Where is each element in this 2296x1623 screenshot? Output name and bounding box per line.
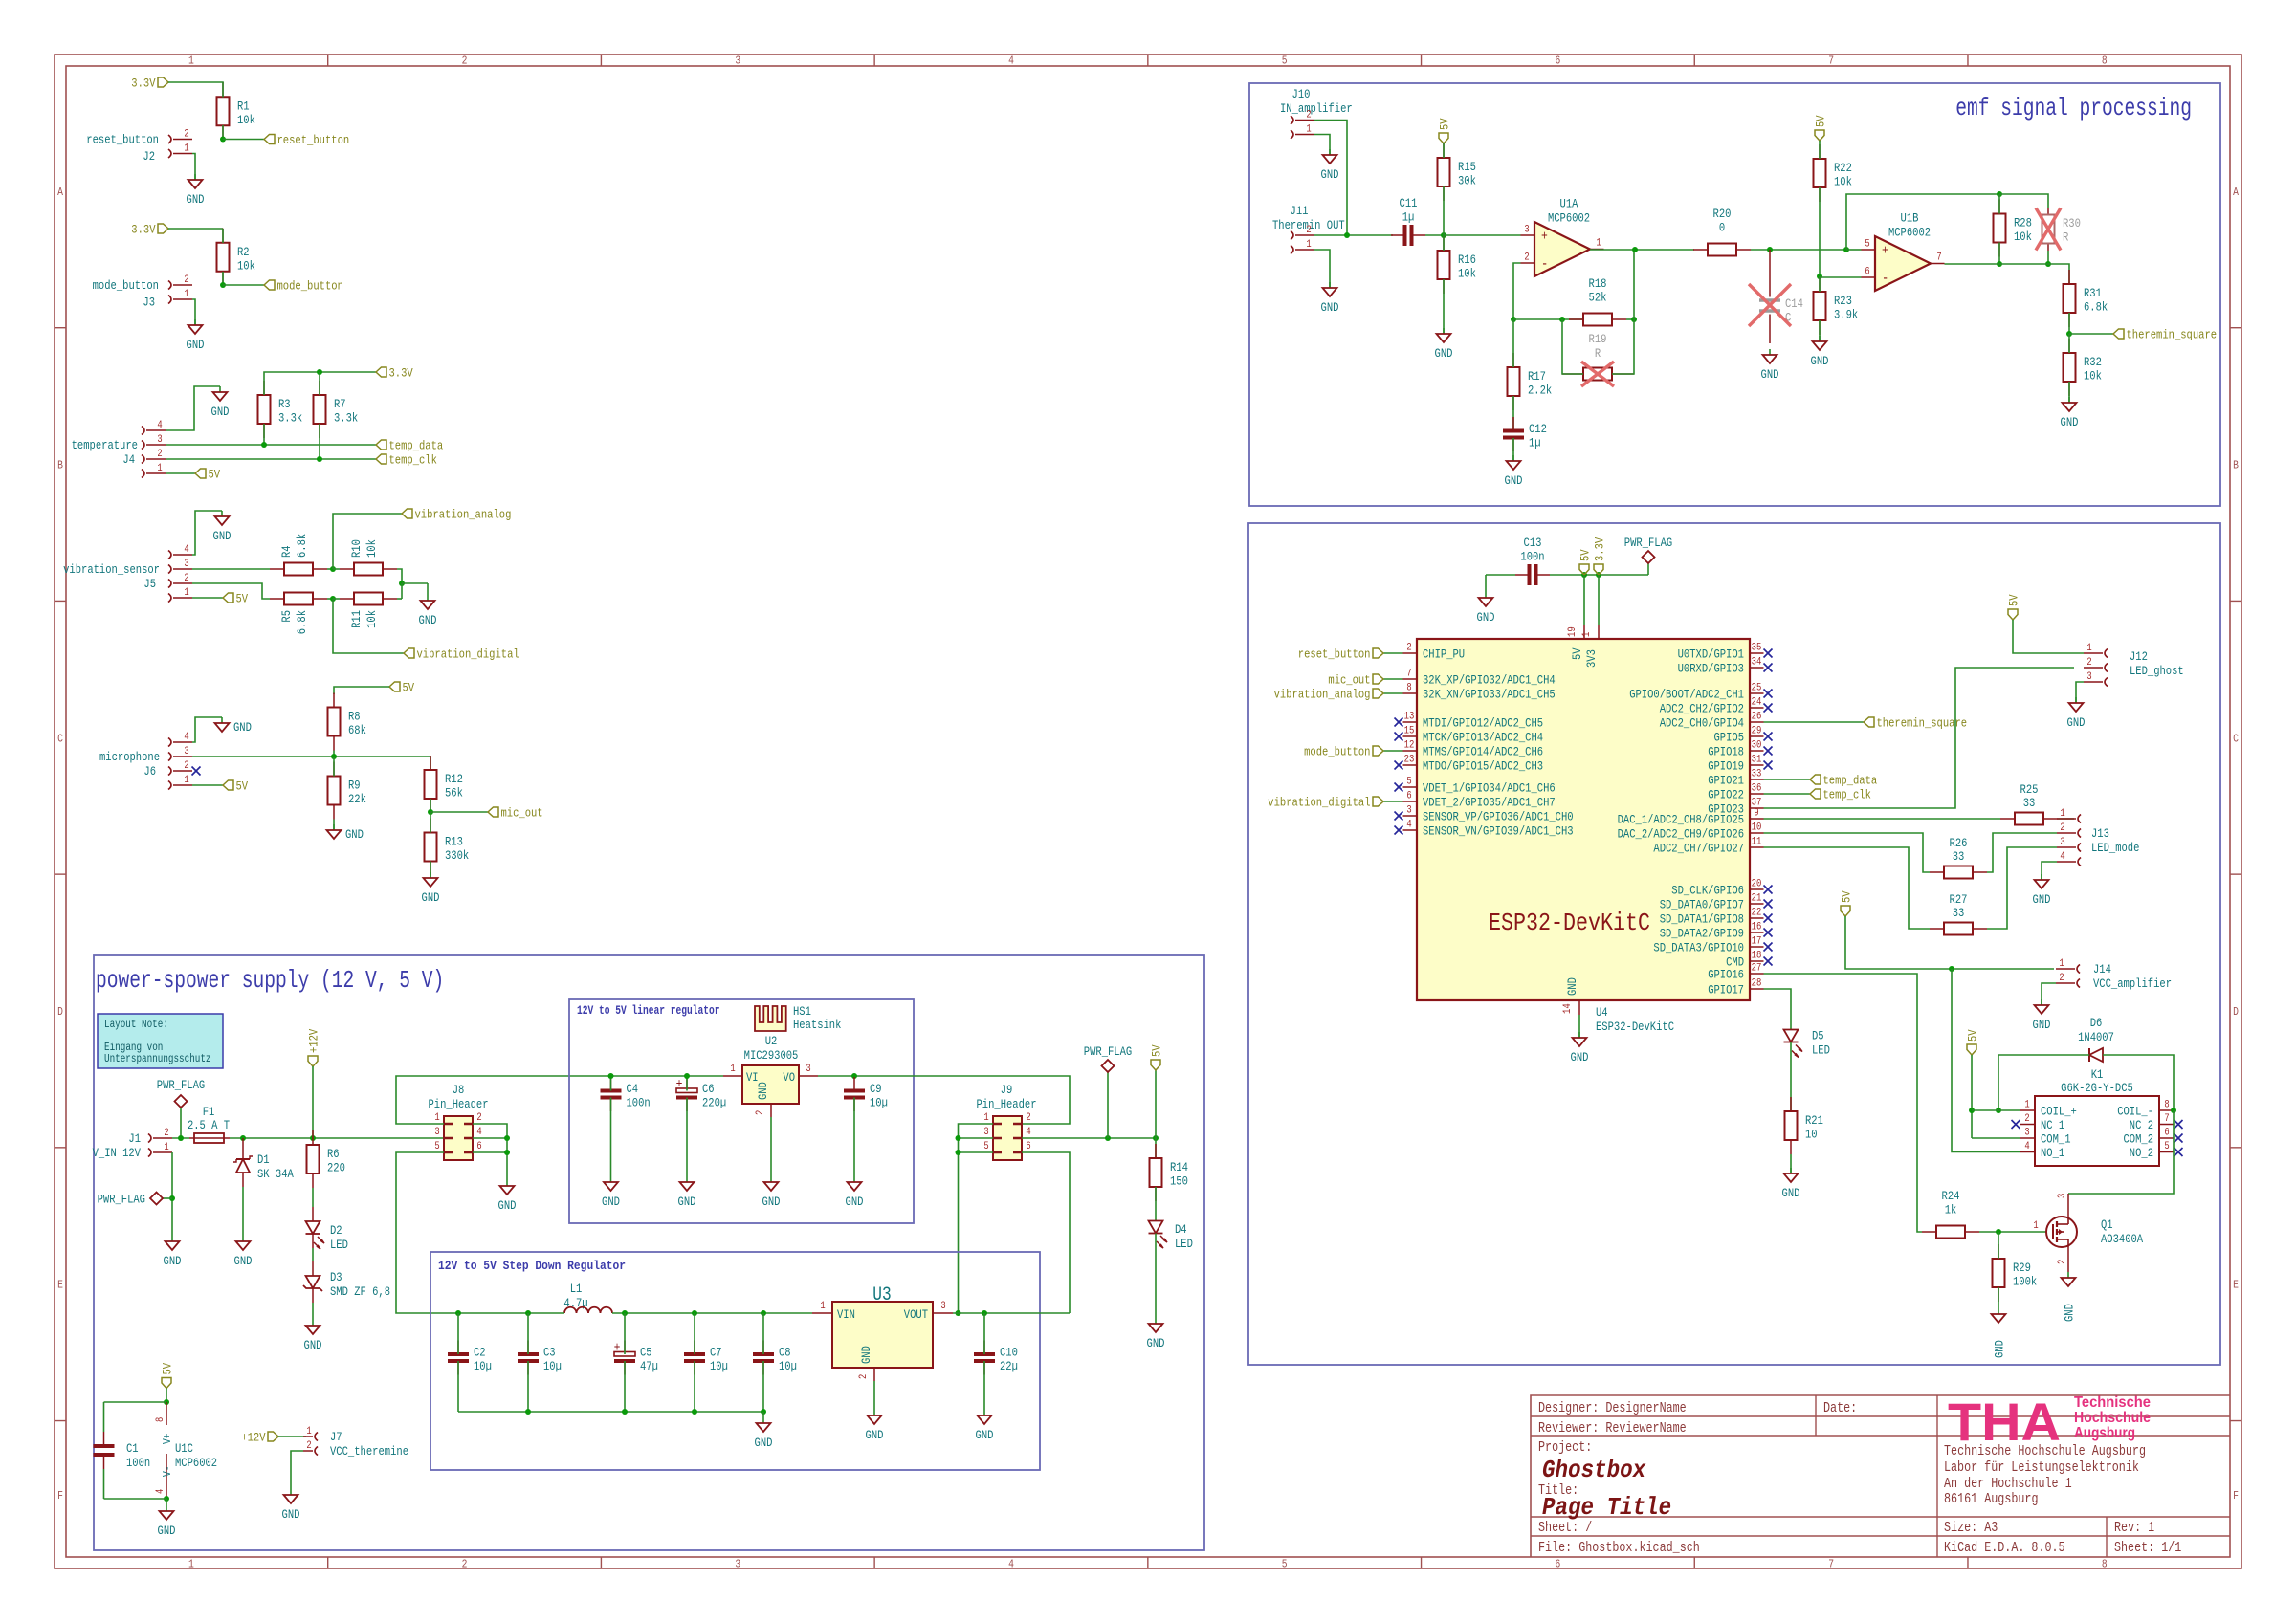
svg-text:10k: 10k xyxy=(237,113,255,127)
wire D4 to GND xyxy=(1155,1234,1157,1325)
regulator U2 pin VO xyxy=(783,1064,818,1085)
wire R10 to right corner xyxy=(397,569,402,583)
wire J2 pin1 to GND xyxy=(192,154,195,181)
esp32 section box xyxy=(1248,523,2220,1365)
svg-text:86161 Augsburg: 86161 Augsburg xyxy=(1944,1492,2039,1507)
svg-text:theremin_square: theremin_square xyxy=(1877,716,1968,731)
no-connect ESP32 pin 20 xyxy=(1764,886,1773,894)
resistor R17 xyxy=(1508,353,1553,410)
wire junction down to R11 xyxy=(401,583,403,599)
resistor R7 xyxy=(314,381,359,438)
ESP32 right pin 36 GPIO22 xyxy=(1708,783,1763,802)
svg-text:2: 2 xyxy=(2086,657,2091,669)
svg-text:2: 2 xyxy=(2057,1260,2068,1264)
wire C2 bottom xyxy=(457,1361,459,1412)
svg-text:6.8k: 6.8k xyxy=(295,610,309,634)
wire junction to R23 xyxy=(1819,276,1821,292)
svg-text:33: 33 xyxy=(1953,906,1965,920)
ESP32 right pin 28 GPIO17 xyxy=(1708,978,1763,998)
svg-text:2: 2 xyxy=(462,55,468,68)
wire gate to R29 xyxy=(1998,1232,1999,1259)
ground below D4 xyxy=(1147,1324,1165,1350)
svg-text:temp_clk: temp_clk xyxy=(389,453,438,468)
svg-text:B: B xyxy=(2233,459,2239,472)
wire R11 right pin xyxy=(397,598,402,600)
Q1 source pin 2 xyxy=(2057,1247,2068,1272)
svg-text:GND: GND xyxy=(2061,415,2079,429)
svg-text:J7: J7 xyxy=(330,1430,342,1444)
svg-text:1µ: 1µ xyxy=(1402,210,1415,225)
ground for J11 xyxy=(1321,282,1339,315)
svg-text:GND: GND xyxy=(1761,367,1779,382)
svg-text:ADC2_CH0/GPIO4: ADC2_CH0/GPIO4 xyxy=(1660,716,1744,731)
ESP32 left pin 12 MTMS/GPIO14/ADC2_CH6 xyxy=(1403,740,1544,759)
svg-text:3: 3 xyxy=(157,434,162,446)
wire COM_1 to 5V xyxy=(1972,1137,2020,1139)
svg-text:17: 17 xyxy=(1752,936,1762,948)
svg-text:GND: GND xyxy=(1435,346,1453,361)
svg-text:12V to 5V Step Down Regulator: 12V to 5V Step Down Regulator xyxy=(438,1259,626,1273)
node gnd rail C7 xyxy=(692,1409,697,1415)
DNP cross on R19 xyxy=(1581,362,1614,386)
wire 3.3V to R2 xyxy=(168,228,223,230)
wire R28 top xyxy=(1998,194,2000,214)
wire R32 top xyxy=(2068,334,2070,353)
node coil plus junction xyxy=(1969,1108,1975,1113)
svg-text:GND: GND xyxy=(1571,1050,1589,1064)
svg-text:4: 4 xyxy=(2060,851,2065,863)
svg-text:16: 16 xyxy=(1752,922,1762,933)
svg-text:2: 2 xyxy=(1406,643,1411,654)
op-amp U1A xyxy=(1521,197,1604,277)
svg-text:R28: R28 xyxy=(2014,216,2032,230)
wire J9 pin4 to 5V rail xyxy=(1022,1137,1156,1139)
svg-text:1: 1 xyxy=(306,1426,312,1437)
wire J8 pin1 to linear rail xyxy=(396,1076,723,1124)
resistor R2 xyxy=(217,229,256,286)
svg-text:SD_DATA1/GPIO8: SD_DATA1/GPIO8 xyxy=(1660,912,1744,927)
svg-text:5V: 5V xyxy=(2007,594,2021,606)
wire R12 bottom to junction xyxy=(430,799,431,812)
no-connect K1 COM_2 xyxy=(2175,1134,2183,1143)
wire 5V to R15 xyxy=(1443,143,1445,158)
svg-text:C: C xyxy=(57,732,63,745)
svg-text:F1: F1 xyxy=(203,1105,215,1119)
connector J6 pin 4 xyxy=(168,732,192,747)
wire R23 to GND xyxy=(1819,320,1821,341)
svg-text:R13: R13 xyxy=(445,835,463,849)
wire junction to R17 xyxy=(1512,319,1514,367)
ESP32 right pin 30 GPIO18 xyxy=(1708,740,1763,759)
svg-text:J10: J10 xyxy=(1292,87,1311,101)
ESP32 right pin 33 GPIO21 xyxy=(1708,769,1763,788)
connector J5 pin 2 xyxy=(168,573,192,588)
wire J8 pin5 to buck rail xyxy=(396,1152,458,1313)
connector J13 pin 1 xyxy=(2057,808,2081,823)
svg-text:2: 2 xyxy=(1306,225,1311,236)
svg-text:PWR_FLAG: PWR_FLAG xyxy=(98,1193,145,1207)
svg-text:3: 3 xyxy=(735,55,740,68)
ESP32 right pin 26 ADC2_CH0/GPIO4 xyxy=(1660,712,1764,731)
svg-text:36: 36 xyxy=(1752,783,1762,795)
hier label theremin_square at ESP32 xyxy=(1864,716,1967,731)
svg-text:J12: J12 xyxy=(2130,649,2148,664)
svg-text:1: 1 xyxy=(164,1142,169,1153)
wire U1B minus jog xyxy=(1820,276,1862,278)
node J10/J11 junction xyxy=(1344,232,1350,238)
wire C1 bottom rail xyxy=(104,1498,167,1500)
wire J5 pin3 to R4 xyxy=(192,568,270,570)
svg-text:+: + xyxy=(614,1341,621,1356)
svg-text:10: 10 xyxy=(1752,822,1762,834)
svg-text:2: 2 xyxy=(462,1558,468,1571)
svg-text:3: 3 xyxy=(2024,1128,2029,1139)
svg-text:temperature: temperature xyxy=(72,438,138,452)
svg-text:GPIO18: GPIO18 xyxy=(1708,745,1744,759)
relay K1 right pin 8 COIL_- xyxy=(2117,1100,2174,1119)
connector J8 pin stubs and numbers xyxy=(434,1112,482,1152)
svg-text:V-: V- xyxy=(161,1465,174,1477)
ESP32 right pin 35 U0TXD/GPIO1 xyxy=(1678,643,1764,662)
wire R15 to junction xyxy=(1443,186,1445,235)
ESP32 right pin 11 ADC2_CH7/GPIO27 xyxy=(1653,837,1763,856)
connector J12 pin 2 xyxy=(2084,657,2108,672)
svg-text:33: 33 xyxy=(1752,769,1762,780)
hier label theremin_square xyxy=(2113,328,2217,342)
resistor R14 xyxy=(1150,1144,1189,1201)
svg-text:R14: R14 xyxy=(1170,1160,1188,1174)
wire J1 pin1 down xyxy=(171,1152,173,1236)
svg-text:GND: GND xyxy=(1993,1340,2007,1358)
node coil plus junction 2 xyxy=(1996,1108,2001,1113)
svg-text:R21: R21 xyxy=(1805,1113,1823,1128)
frame row tick 4 right xyxy=(2230,1147,2241,1149)
connector J1 pin 1 xyxy=(148,1142,172,1157)
connector J4 pin 4 xyxy=(142,420,166,435)
svg-text:2: 2 xyxy=(1524,252,1529,264)
wire 3.3V to R1 xyxy=(168,81,223,84)
svg-text:SMD ZF 6,8: SMD ZF 6,8 xyxy=(330,1284,390,1299)
resistor R26 xyxy=(1930,836,1987,879)
svg-text:SD_DATA0/GPIO7: SD_DATA0/GPIO7 xyxy=(1660,898,1744,912)
svg-text:+12V: +12V xyxy=(307,1029,321,1053)
hier label 3.3V (R1 pull-up) xyxy=(131,77,168,91)
svg-text:1: 1 xyxy=(157,463,163,474)
no-connect K1 NC_1 xyxy=(2012,1120,2020,1129)
hier label temp_data at ESP32 xyxy=(1810,774,1877,788)
connector J1 pin 2 xyxy=(148,1128,172,1143)
wire mic_out xyxy=(430,811,488,813)
wire J9 pin6 to VOUT rail xyxy=(1022,1152,1070,1313)
LED D2 xyxy=(306,1188,349,1252)
svg-text:3.3V: 3.3V xyxy=(131,77,155,91)
frame column tick 3 bottom xyxy=(873,1557,875,1568)
svg-text:10k: 10k xyxy=(364,610,379,628)
svg-text:Size: A3: Size: A3 xyxy=(1944,1521,1998,1536)
svg-text:R4: R4 xyxy=(279,545,294,558)
zener diode D3 SMD ZF 6,8 xyxy=(303,1234,390,1326)
wire C2 top xyxy=(457,1313,459,1354)
wire J10 pin1 to GND xyxy=(1314,135,1330,156)
wire R27 to J13 pin3 xyxy=(1987,847,2057,929)
svg-text:32K_XN/GPIO33/ADC1_CH5: 32K_XN/GPIO33/ADC1_CH5 xyxy=(1423,688,1556,702)
svg-text:SENSOR_VP/GPIO36/ADC1_CH0: SENSOR_VP/GPIO36/ADC1_CH0 xyxy=(1423,810,1574,824)
no-connect K1 NO_2 xyxy=(2175,1148,2183,1156)
ESP32 pin 14 stub (GND) xyxy=(1562,977,1579,1015)
wire R20 to C14 node xyxy=(1751,249,1795,251)
connector J3 pin 1 xyxy=(168,289,192,304)
wire junction to reset_button label xyxy=(223,139,264,141)
wire theremin_square label xyxy=(2069,333,2113,335)
svg-text:D3: D3 xyxy=(330,1270,342,1284)
svg-text:J6: J6 xyxy=(143,764,156,779)
power flag at V_IN xyxy=(157,1078,205,1138)
svg-text:SD_DATA2/GPIO9: SD_DATA2/GPIO9 xyxy=(1660,927,1744,941)
svg-text:File: Ghostbox.kicad_sch: File: Ghostbox.kicad_sch xyxy=(1538,1541,1700,1556)
wire R22 down crossing xyxy=(1819,187,1821,276)
svg-text:A: A xyxy=(57,186,63,199)
wire J8 pin6 tie xyxy=(473,1151,507,1153)
ground for J5 pin4 xyxy=(213,511,232,543)
wire R31 bottom xyxy=(2068,313,2070,334)
frame column tick 3 top xyxy=(873,55,875,66)
no-connect ESP32 pin 29 xyxy=(1764,733,1773,741)
svg-text:VDET_1/GPIO34/ADC1_CH6: VDET_1/GPIO34/ADC1_CH6 xyxy=(1423,781,1556,796)
svg-text:HS1: HS1 xyxy=(793,1004,811,1019)
ground below C4 xyxy=(602,1176,620,1209)
svg-text:GND: GND xyxy=(304,1338,322,1352)
svg-text:2: 2 xyxy=(184,760,188,772)
no-connect ESP32 pin 16 xyxy=(1764,929,1773,937)
ground below U1C xyxy=(158,1511,176,1538)
svg-text:K1: K1 xyxy=(2091,1067,2104,1082)
wire GPIO27 jog down xyxy=(1764,847,1931,929)
wire J6 pin1 to 5V xyxy=(192,784,223,786)
connector J6 pin 3 xyxy=(168,746,192,761)
resistor R13 xyxy=(425,819,470,876)
svg-text:reset_button: reset_button xyxy=(1298,647,1371,662)
node NO_1 tap junction xyxy=(1949,966,1954,972)
wire C5 bottom xyxy=(624,1361,626,1412)
svg-text:52k: 52k xyxy=(1589,291,1607,305)
svg-text:14: 14 xyxy=(1562,1003,1574,1014)
svg-text:5V: 5V xyxy=(1438,118,1452,130)
wire J13 pin4 to GND xyxy=(2042,862,2057,880)
svg-text:DAC_2/ADC2_CH9/GPIO26: DAC_2/ADC2_CH9/GPIO26 xyxy=(1618,827,1744,842)
capacitor C5 xyxy=(614,1341,658,1375)
wire R8 bottom xyxy=(333,751,335,757)
svg-text:GND: GND xyxy=(1321,167,1339,182)
resistor R22 xyxy=(1814,144,1853,202)
svg-text:C7: C7 xyxy=(710,1346,722,1360)
wire C13 to PWR_FLAG xyxy=(1550,574,1648,576)
svg-text:GND: GND xyxy=(2067,715,2086,730)
svg-text:Technische: Technische xyxy=(2074,1394,2151,1411)
svg-text:3: 3 xyxy=(184,559,188,570)
svg-text:2: 2 xyxy=(2060,822,2064,834)
svg-text:30k: 30k xyxy=(1458,174,1476,188)
svg-text:mode_button: mode_button xyxy=(93,278,159,293)
node C6 junction xyxy=(684,1073,690,1079)
wire C3 top xyxy=(527,1313,529,1354)
svg-text:33: 33 xyxy=(1953,849,1965,864)
resistor R25 xyxy=(2000,782,2058,825)
node J9 left to VOUT rail xyxy=(956,1310,961,1316)
node J8 right tie 2 xyxy=(504,1150,510,1155)
svg-text:COIL_-: COIL_- xyxy=(2117,1105,2153,1119)
svg-text:Designer: DesignerName: Designer: DesignerName xyxy=(1538,1401,1687,1416)
ESP32 right pin 17 SD_DATA3/GPIO10 xyxy=(1653,936,1763,955)
node feedback left junction xyxy=(1511,317,1516,322)
wire junction to vibration_digital xyxy=(333,599,404,653)
connector J2 pin 1 xyxy=(168,143,192,159)
linear regulator section box xyxy=(569,999,914,1223)
resistor R32 xyxy=(2064,339,2103,396)
svg-text:1: 1 xyxy=(434,1112,440,1124)
ground left of C13 xyxy=(1477,575,1495,625)
node U1C V+ junction xyxy=(164,1399,169,1405)
resistor R6 xyxy=(307,1130,345,1188)
fuse F1 xyxy=(188,1105,230,1143)
frame row tick 3 left xyxy=(55,873,66,875)
frame column tick 1 top xyxy=(327,55,329,66)
svg-text:U1B: U1B xyxy=(1901,211,1919,226)
ESP32 right pin 18 CMD xyxy=(1726,951,1763,970)
svg-text:GND: GND xyxy=(1782,1186,1800,1200)
hier label 5V for J4 xyxy=(195,468,220,482)
svg-text:Project:: Project: xyxy=(1538,1440,1592,1456)
frame column tick 6 bottom xyxy=(1693,1557,1695,1568)
LED D4 xyxy=(1149,1221,1194,1252)
svg-text:3.3V: 3.3V xyxy=(1593,537,1607,561)
svg-text:2: 2 xyxy=(1026,1112,1030,1124)
svg-text:1: 1 xyxy=(184,775,189,786)
node C5 junction xyxy=(622,1310,628,1316)
svg-text:5: 5 xyxy=(1282,1558,1288,1571)
svg-text:19: 19 xyxy=(1567,626,1578,637)
svg-text:SD_DATA3/GPIO10: SD_DATA3/GPIO10 xyxy=(1653,941,1744,955)
svg-text:E: E xyxy=(57,1279,63,1292)
relay K1 right pin 6 COM_2 xyxy=(2124,1128,2175,1147)
svg-text:+12V: +12V xyxy=(241,1431,265,1445)
svg-text:D1: D1 xyxy=(257,1152,270,1167)
wire J11 pin2 to C11 xyxy=(1314,234,1393,236)
ESP32 right pin 24 ADC2_CH2/GPIO2 xyxy=(1660,697,1764,716)
wire R7 bottom to temp_clk xyxy=(319,424,320,459)
wire R1 to junction xyxy=(222,125,224,140)
svg-text:R16: R16 xyxy=(1458,252,1476,267)
wire R26 to J13 pin2 xyxy=(1987,833,2057,872)
node 5V label junction xyxy=(1153,1135,1159,1141)
svg-text:8: 8 xyxy=(1406,683,1411,694)
svg-text:1: 1 xyxy=(730,1064,736,1075)
hier label mode_button at ESP32 xyxy=(1304,745,1383,759)
svg-text:R23: R23 xyxy=(1834,294,1852,308)
capacitor C10 xyxy=(974,1341,1018,1375)
node R6 junction xyxy=(310,1135,316,1141)
wire C6 to GND xyxy=(686,1098,688,1177)
svg-text:VO: VO xyxy=(783,1070,795,1085)
ground below R9 xyxy=(327,824,364,842)
connector J5 pin 3 xyxy=(168,559,192,574)
wire U1C to GND xyxy=(166,1499,167,1511)
svg-text:4: 4 xyxy=(184,732,189,743)
wire R2 to junction xyxy=(222,272,224,285)
svg-text:27: 27 xyxy=(1752,963,1762,975)
wire R32 to GND xyxy=(2068,382,2070,403)
svg-text:3: 3 xyxy=(184,746,188,757)
node C7 junction xyxy=(692,1310,697,1316)
svg-text:5: 5 xyxy=(434,1141,439,1152)
svg-text:J2: J2 xyxy=(143,149,155,164)
svg-text:R8: R8 xyxy=(348,710,361,724)
wire 5V to R8 xyxy=(334,687,389,694)
title block logo column line xyxy=(1936,1395,1938,1557)
svg-text:R9: R9 xyxy=(348,779,361,793)
wire D6 cathode side xyxy=(1998,1055,2089,1110)
connector J7 pin 1 xyxy=(303,1426,318,1441)
svg-text:vibration_sensor: vibration_sensor xyxy=(63,562,160,577)
svg-text:C: C xyxy=(2233,732,2239,745)
svg-text:J9: J9 xyxy=(1001,1083,1013,1097)
svg-text:PWR_FLAG: PWR_FLAG xyxy=(1624,536,1672,550)
svg-text:C14: C14 xyxy=(1785,296,1803,311)
svg-text:5V: 5V xyxy=(403,681,415,695)
wire R3 bottom to temp_data xyxy=(263,424,265,445)
node R18 right junction xyxy=(1631,317,1637,322)
svg-text:U0TXD/GPIO1: U0TXD/GPIO1 xyxy=(1678,647,1745,662)
svg-text:34: 34 xyxy=(1752,657,1762,669)
hier label +12V for J7 xyxy=(241,1431,278,1445)
ESP32 right pin 9 DAC_1/ADC2_CH8/GPIO25 xyxy=(1618,808,1764,827)
svg-text:VIN: VIN xyxy=(837,1307,855,1322)
svg-text:U2: U2 xyxy=(765,1034,778,1048)
svg-text:MCP6002: MCP6002 xyxy=(175,1456,217,1470)
svg-text:GND: GND xyxy=(419,613,437,627)
svg-text:R25: R25 xyxy=(2020,782,2039,797)
svg-text:C9: C9 xyxy=(870,1082,882,1096)
svg-text:SK 34A: SK 34A xyxy=(257,1167,294,1181)
node C10 junction xyxy=(982,1310,987,1316)
resistor R30 (DNP) xyxy=(2042,208,2081,251)
resistor R20 xyxy=(1693,207,1751,256)
svg-text:33: 33 xyxy=(2023,796,2036,810)
capacitor C3 xyxy=(518,1341,562,1375)
hier label 5V mic divider xyxy=(389,681,414,695)
svg-text:32K_XP/GPIO32/ADC1_CH4: 32K_XP/GPIO32/ADC1_CH4 xyxy=(1423,673,1556,688)
wire R14 to D4 xyxy=(1155,1187,1157,1221)
svg-text:D: D xyxy=(57,1005,63,1019)
ground for J12 xyxy=(2067,697,2086,730)
wire junction to R16 xyxy=(1443,235,1445,251)
title block row line 1 xyxy=(1531,1415,2230,1417)
wire R9 top xyxy=(333,757,335,777)
ESP32 left pin 4 SENSOR_VN/GPIO39/ADC1_CH3 xyxy=(1403,820,1574,839)
hier label vibration_analog xyxy=(402,508,511,522)
svg-text:vibration_analog: vibration_analog xyxy=(415,508,512,522)
svg-text:10µ: 10µ xyxy=(543,1359,562,1373)
svg-text:47µ: 47µ xyxy=(640,1359,658,1373)
svg-text:1µ: 1µ xyxy=(1529,436,1541,450)
wire feedback row to R18 xyxy=(1513,318,1583,320)
svg-text:7: 7 xyxy=(1936,252,1941,264)
svg-text:7: 7 xyxy=(1828,1558,1834,1571)
ESP32 right pin 16 SD_DATA2/GPIO9 xyxy=(1660,922,1764,941)
no-connect ESP32 pin 4 xyxy=(1395,826,1403,835)
svg-text:GPIO0/BOOT/ADC2_CH1: GPIO0/BOOT/ADC2_CH1 xyxy=(1629,688,1744,702)
svg-text:22µ: 22µ xyxy=(1000,1359,1018,1373)
hier label 3.3V (R2 pull-up) xyxy=(131,223,168,237)
